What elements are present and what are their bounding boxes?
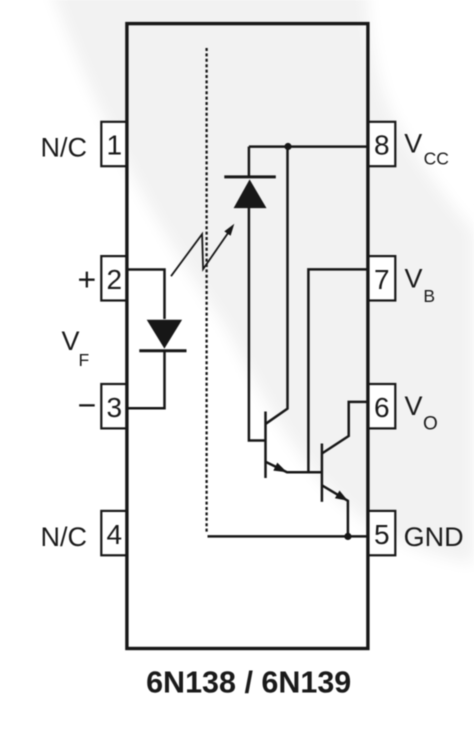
svg-text:CC: CC <box>424 149 449 169</box>
svg-text:2: 2 <box>107 264 123 295</box>
svg-text:5: 5 <box>374 519 390 550</box>
svg-text:6: 6 <box>374 392 390 423</box>
svg-text:V: V <box>62 326 80 356</box>
svg-text:V: V <box>405 264 423 294</box>
svg-text:GND: GND <box>404 522 464 552</box>
svg-text:6N138 / 6N139: 6N138 / 6N139 <box>146 666 351 700</box>
svg-text:7: 7 <box>374 264 390 295</box>
svg-text:F: F <box>79 350 90 370</box>
svg-text:+: + <box>78 262 97 298</box>
svg-text:O: O <box>423 414 438 435</box>
svg-text:3: 3 <box>107 392 123 423</box>
svg-text:4: 4 <box>107 519 123 550</box>
svg-text:V: V <box>405 391 423 421</box>
svg-text:B: B <box>423 286 435 306</box>
svg-text:1: 1 <box>107 130 123 161</box>
svg-text:8: 8 <box>374 130 390 161</box>
svg-text:−: − <box>78 387 97 423</box>
svg-text:N/C: N/C <box>41 522 88 552</box>
svg-text:V: V <box>404 128 422 158</box>
svg-text:N/C: N/C <box>41 133 88 163</box>
